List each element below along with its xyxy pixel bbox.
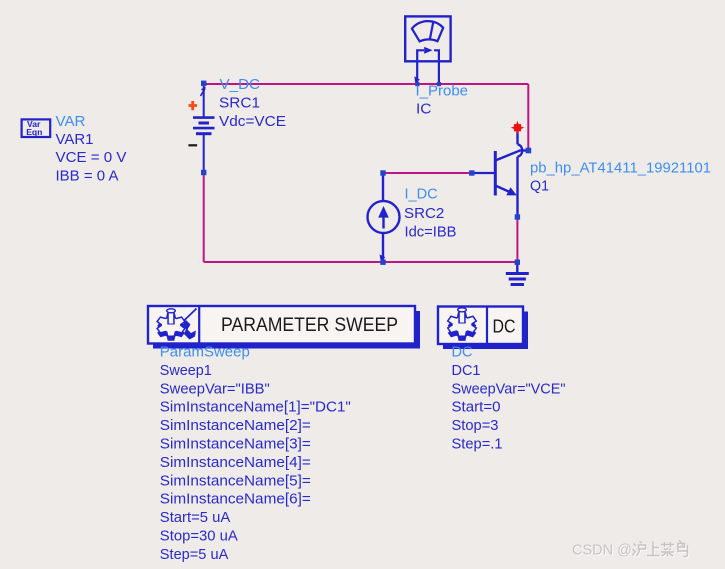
node: probe right pin [437,82,441,86]
node: probe left pin [415,82,419,86]
svg-text:DC: DC [493,316,516,337]
svg-text:ParamSweep: ParamSweep [160,345,250,361]
ground symbol [506,263,529,285]
PARAMETER SWEEP controller box shadow [153,311,420,349]
watermark CJK glyphs 沪上菜鸟 drawn as strokes [633,541,688,557]
node: Q1 lower emitter pin [515,214,520,219]
svg-text:Step=.1: Step=.1 [452,437,503,453]
unconnected pin marker red star [511,121,525,135]
svg-text:SimInstanceName[4]=: SimInstanceName[4]= [160,455,311,471]
svg-text:Step=5 uA: Step=5 uA [160,547,229,563]
wire top rail from SRC1 plus node to collector corner [204,83,529,85]
svg-text:Vdc=VCE: Vdc=VCE [219,114,286,130]
node: SRC2 top pin [380,170,385,175]
svg-text:SweepVar="IBB": SweepVar="IBB" [160,381,270,397]
wire bottom ground rail [204,261,518,263]
current source I_DC SRC2 [368,174,400,261]
svg-text:Start=0: Start=0 [452,400,501,416]
svg-text:Stop=30 uA: Stop=30 uA [160,529,238,545]
transistor Q1 pb_hp_AT41411_19921101 [472,131,527,216]
svg-text:SimInstanceName[5]=: SimInstanceName[5]= [160,473,311,489]
node: SRC2 bottom pin [380,260,385,265]
svg-text:SRC2: SRC2 [404,206,444,222]
svg-text:IC: IC [416,102,432,118]
minus polarity mark [188,144,197,146]
wire base net from SRC2 to Q1 base [383,172,472,174]
svg-text:SweepVar="VCE": SweepVar="VCE" [452,381,566,397]
svg-text:Stop=3: Stop=3 [452,418,499,434]
svg-text:Eqn: Eqn [26,127,42,137]
VAR box inner text [26,119,42,137]
watermark CJK glyphs emboss [634,542,689,558]
DC controller box [438,307,523,345]
svg-text:I_Probe: I_Probe [416,84,469,100]
SRC2 pin 2 arrow at rail [380,255,386,261]
node: Q1 base pin [469,170,474,175]
I_Probe pin 1 arrow at wire [414,76,420,82]
svg-text:SRC1: SRC1 [219,96,260,112]
svg-text:V_DC: V_DC [220,77,261,93]
PARAMETER SWEEP icon cell divider [198,306,200,344]
DC controller box shadow [443,312,528,350]
svg-text:SimInstanceName[6]=: SimInstanceName[6]= [160,492,311,508]
Q1 emitter arrow head [506,187,517,195]
wire emitter to ground rail [516,218,518,262]
I_Probe loop with current arrow [417,50,439,84]
PARAMETER SWEEP gear and wrench icon [157,309,196,341]
node: SRC1 minus pin [201,170,206,175]
svg-text:VAR: VAR [56,114,86,130]
svg-text:IBB = 0 A: IBB = 0 A [56,168,119,184]
svg-text:VCE = 0 V: VCE = 0 V [56,150,127,166]
svg-text:VAR1: VAR1 [56,132,94,148]
svg-text:DC: DC [452,345,473,361]
voltage source V_DC SRC1 battery symbol [193,85,215,172]
plus polarity mark [189,101,198,110]
svg-text:SimInstanceName[1]="DC1": SimInstanceName[1]="DC1" [160,400,351,416]
svg-text:PARAMETER SWEEP: PARAMETER SWEEP [221,315,398,336]
svg-text:Sweep1: Sweep1 [160,363,212,379]
svg-text:I_DC: I_DC [405,186,438,202]
svg-text:SimInstanceName[2]=: SimInstanceName[2]= [160,418,311,434]
svg-text:Q1: Q1 [530,179,549,195]
svg-text:CSDN @: CSDN @ [572,543,632,559]
wire SRC1 minus lead down to ground rail [203,174,205,262]
SRC1 pin 1 arrow [201,87,206,96]
node: ground junction [515,260,520,265]
current probe I_Probe meter body [405,16,450,61]
node: SRC1 plus pin [201,81,206,86]
svg-text:DC1: DC1 [452,363,481,379]
I_Probe gauge fan and needle [412,21,443,41]
svg-text:Start=5 uA: Start=5 uA [160,510,231,526]
PARAMETER SWEEP controller box [148,306,415,344]
wire right drop to collector pin [527,84,529,148]
I_Probe arrow head on loop [424,47,432,54]
svg-text:SimInstanceName[3]=: SimInstanceName[3]= [160,437,311,453]
svg-text:Idc=IBB: Idc=IBB [405,225,457,241]
SRC2 arrow head inside circle [378,206,389,218]
DC gear icon [448,308,477,341]
VAR equation block Var Eqn box [22,119,51,137]
svg-text:pb_hp_AT41411_19921101: pb_hp_AT41411_19921101 [530,161,711,177]
node: Q1 collector pin [526,148,532,154]
DC icon cell divider [486,307,488,345]
